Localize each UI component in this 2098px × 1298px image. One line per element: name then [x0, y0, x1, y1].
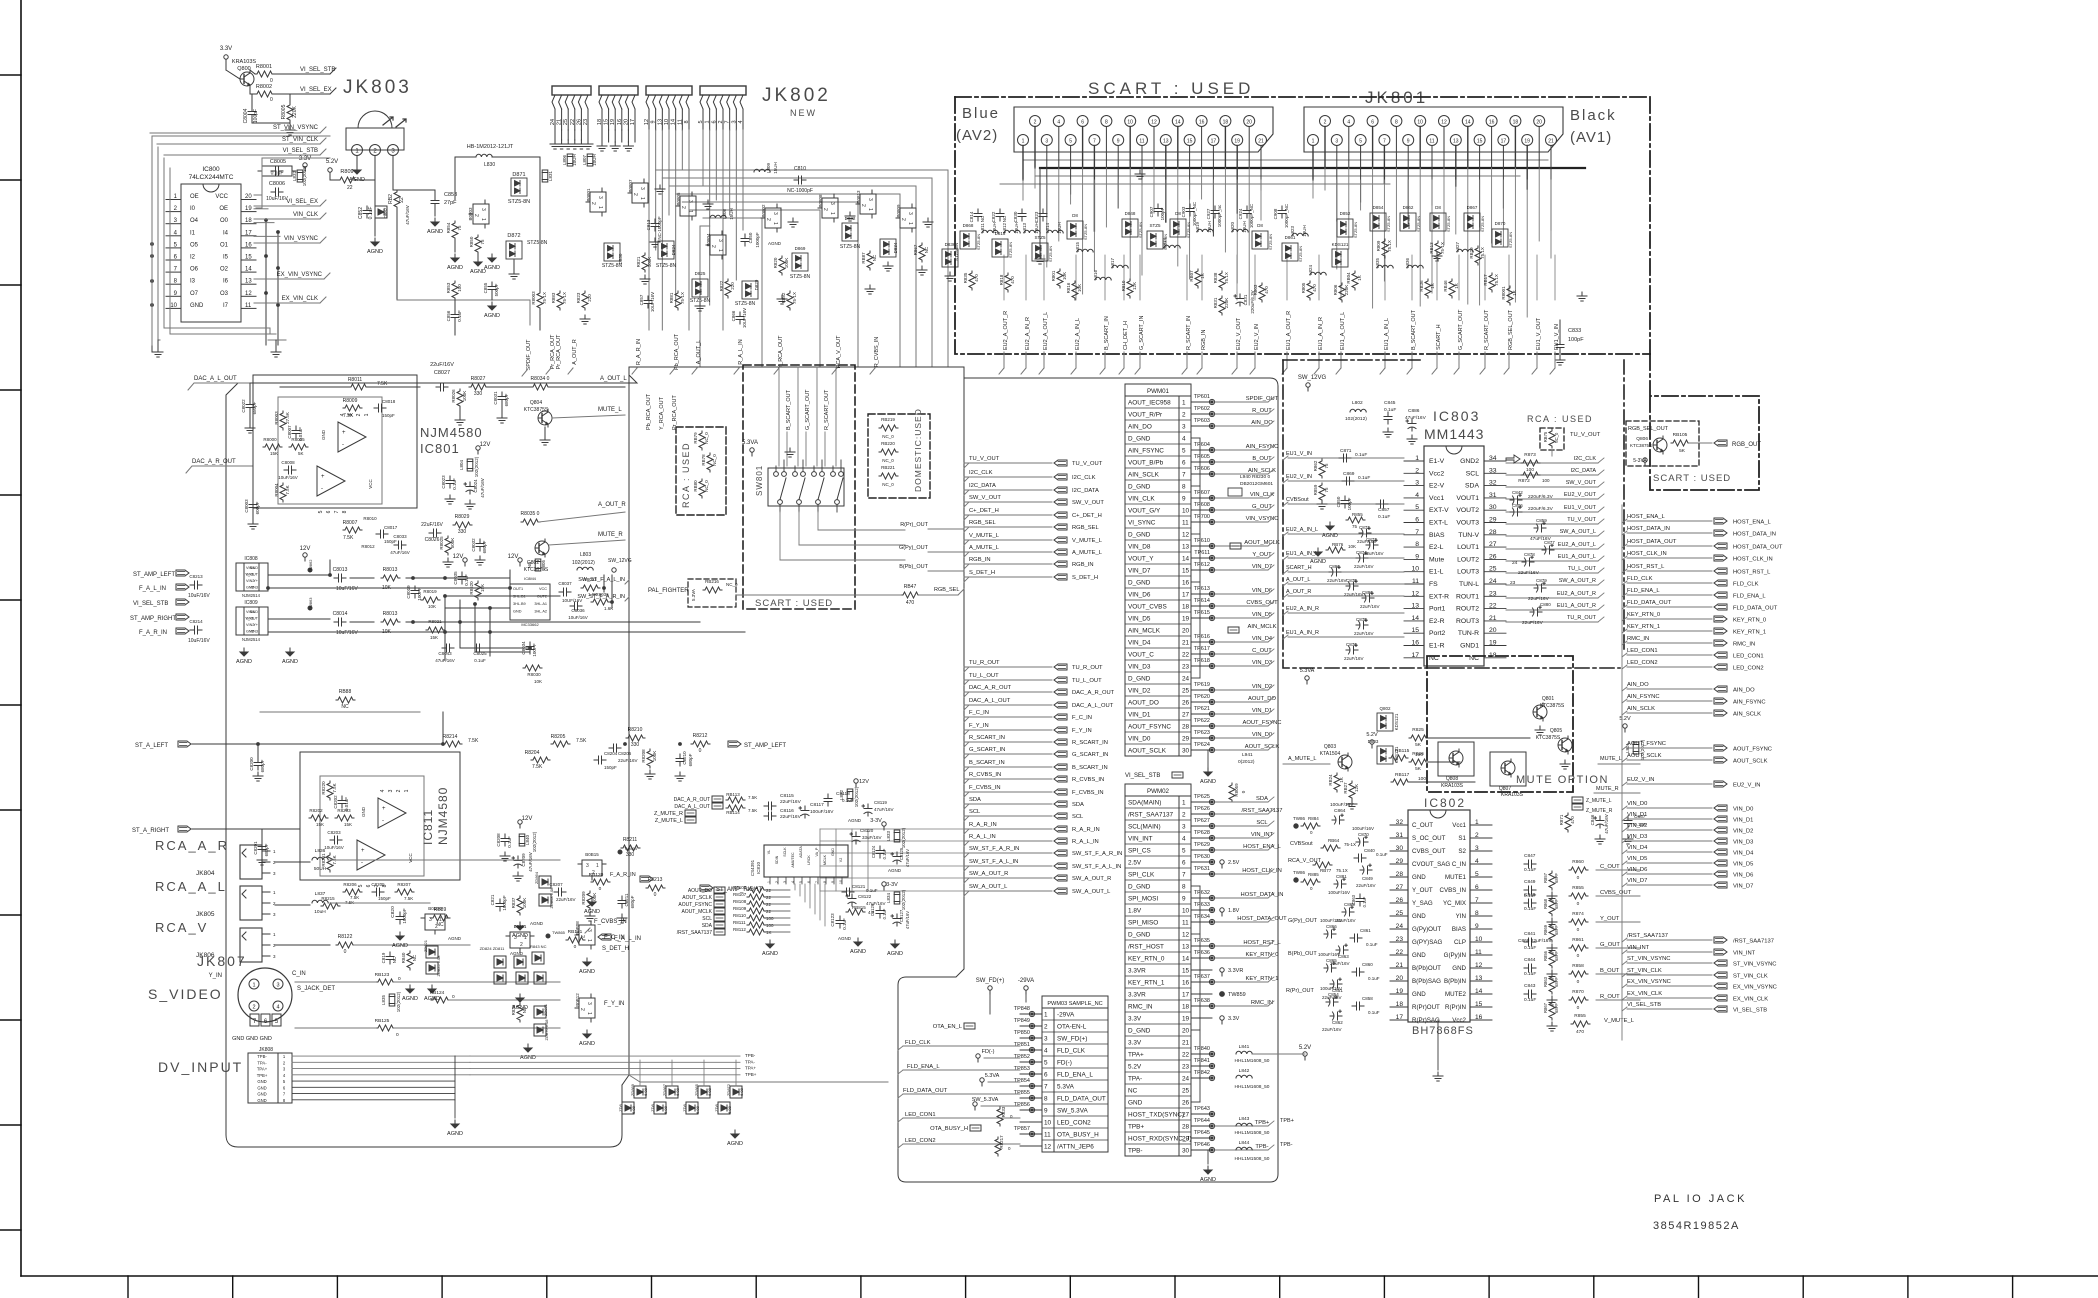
- component B0804: [706, 231, 726, 259]
- svg-text:C872: C872: [1359, 525, 1370, 530]
- svg-text:150pF: 150pF: [384, 539, 397, 544]
- MUTE OPTION dash box: [1427, 656, 1573, 792]
- svg-text:EU2_A_OUT_R: EU2_A_OUT_R: [1557, 591, 1596, 597]
- svg-text:B(Pb)IN: B(Pb)IN: [1444, 978, 1466, 985]
- svg-text:HOST_RST_L: HOST_RST_L: [1243, 940, 1281, 946]
- svg-text:C8205: C8205: [371, 882, 385, 887]
- wire AV1 pin drop: [1324, 127, 1326, 169]
- JK802 pin 14: [673, 95, 676, 109]
- svg-text:F_Y_IN: F_Y_IN: [969, 723, 989, 729]
- test point TP848: [1029, 1011, 1034, 1016]
- svg-text:MM1443: MM1443: [1424, 426, 1484, 442]
- svg-text:C8027: C8027: [434, 370, 450, 376]
- net AOUT_MCL plug: [1230, 543, 1241, 549]
- svg-text:R_A_L_IN: R_A_L_IN: [1072, 839, 1099, 845]
- svg-text:RB36: RB36: [1419, 280, 1424, 292]
- svg-text:3HL.A1: 3HL.A1: [534, 602, 547, 606]
- svg-text:ST_AMP_LEFT: ST_AMP_LEFT: [133, 572, 175, 578]
- wire junction: [444, 595, 447, 598]
- svg-text:IC800: IC800: [202, 166, 220, 173]
- S-Video pin 3: [273, 979, 283, 989]
- svg-text:NC: NC: [872, 254, 877, 261]
- svg-text:VIN_CLK: VIN_CLK: [1250, 492, 1274, 498]
- center region outline: [906, 367, 964, 977]
- wire junction: [257, 743, 260, 746]
- svg-text:LRCK: LRCK: [807, 855, 811, 865]
- svg-text:10: 10: [1182, 908, 1190, 915]
- svg-text:23: 23: [1182, 1064, 1190, 1071]
- PWM01 test point TP614 net CVBS_OUT: [1191, 605, 1212, 607]
- svg-text:C843: C843: [1524, 983, 1536, 989]
- resistor R8201 7.5K: [327, 853, 333, 872]
- svg-text:SCL: SCL: [969, 809, 981, 815]
- PWM01 test point TP615 net VIN_D5: [1191, 617, 1212, 619]
- svg-text:5K: 5K: [298, 451, 304, 456]
- svg-text:L820: L820: [1230, 221, 1235, 232]
- PWM02 test point TP643 net: [1191, 1113, 1212, 1115]
- AV2 pin bottom 17: [1208, 135, 1219, 146]
- svg-text:TPA+: TPA+: [1128, 1052, 1144, 1059]
- svg-text:TP633: TP633: [1194, 902, 1210, 908]
- zener ZD864: [539, 876, 551, 888]
- svg-text:A_OUT_L: A_OUT_L: [600, 376, 627, 382]
- svg-text:9: 9: [1182, 496, 1186, 503]
- svg-text:EU2_V_OUT: EU2_V_OUT: [1564, 492, 1597, 498]
- svg-text:D834: D834: [893, 242, 898, 253]
- JK802 pin 1: [707, 95, 710, 109]
- net tag: [1054, 751, 1067, 757]
- svg-text:21: 21: [1182, 640, 1190, 647]
- net tag: [1714, 860, 1727, 866]
- inductor L832 102(2012): [297, 170, 303, 182]
- svg-text:TP842: TP842: [1194, 1070, 1210, 1076]
- svg-text:NC_0: NC_0: [704, 432, 709, 444]
- svg-text:PWM03 SAMPLE_NC: PWM03 SAMPLE_NC: [1047, 1001, 1102, 1007]
- svg-text:EX_VIN_VSYNC: EX_VIN_VSYNC: [277, 272, 323, 278]
- svg-text:R(Pr)IN: R(Pr)IN: [1445, 1004, 1466, 1011]
- svg-text:2: 2: [775, 881, 779, 883]
- wire AV1 pin drop: [1348, 127, 1350, 169]
- svg-text:VIN3: VIN3: [250, 586, 258, 590]
- svg-text:100pF: 100pF: [253, 109, 259, 123]
- svg-text:MUTE_L: MUTE_L: [598, 407, 622, 413]
- svg-text:100uF/16V: 100uF/16V: [1320, 918, 1342, 923]
- svg-text:FLD_CLK: FLD_CLK: [905, 1040, 931, 1046]
- op-amp U IC811 triangle A: [378, 798, 406, 828]
- svg-text:D832: D832: [845, 216, 856, 221]
- svg-text:/RST_SAA7137: /RST_SAA7137: [1733, 939, 1774, 945]
- svg-text:/RST_HOST: /RST_HOST: [1128, 944, 1164, 951]
- resistor R883 75-1X: [557, 291, 563, 310]
- op-amp block IC811 outer box: [300, 752, 460, 880]
- net tag: [700, 885, 713, 891]
- capacitor C8214 10uF/16V: [190, 626, 202, 634]
- svg-text:R8122: R8122: [338, 934, 353, 940]
- power node 12V: [463, 558, 467, 562]
- net tag: [1714, 710, 1727, 716]
- PWM03 test point TP848: [1020, 1013, 1042, 1015]
- svg-text:-29VA: -29VA: [1018, 978, 1034, 984]
- connector table PWM01: [1125, 384, 1191, 396]
- AGND ground: [371, 238, 379, 246]
- net tag: [1714, 604, 1727, 610]
- wire AV1 pin drop: [1360, 146, 1362, 203]
- svg-text:14: 14: [1182, 556, 1190, 563]
- svg-text:100K: 100K: [647, 257, 652, 268]
- svg-text:L808: L808: [722, 208, 727, 219]
- svg-text:GND: GND: [250, 566, 259, 570]
- svg-text:EX_VIN_CLK: EX_VIN_CLK: [1733, 997, 1768, 1003]
- PWM01 test point TP606 net AIN_SCLK: [1191, 473, 1212, 475]
- svg-text:B0B08: B0B08: [575, 921, 580, 935]
- PWM03 test point TP857: [1020, 1133, 1042, 1135]
- svg-text:ST_AMP_RIGHT: ST_AMP_RIGHT: [130, 616, 176, 622]
- IC IC803 MM1443 body: [1424, 446, 1484, 666]
- svg-text:SDA: SDA: [969, 797, 981, 803]
- PWM02 test point TP630 net 2.5V: [1191, 861, 1212, 863]
- svg-text:R8026: R8026: [451, 389, 456, 403]
- svg-text:YIN: YIN: [1456, 913, 1466, 920]
- resistor R8122 0: [336, 942, 355, 948]
- svg-text:R837: R837: [511, 897, 516, 908]
- net tag: [640, 876, 653, 882]
- PWM01 test point TP610 net AOUT_MCLK: [1191, 545, 1212, 547]
- wire junction: [444, 631, 447, 634]
- inductor L812 10UH: [1004, 230, 1020, 233]
- svg-text:0.1uF: 0.1uF: [1524, 867, 1536, 873]
- capacitor C886 47uF/16V: [1406, 419, 1416, 431]
- resistor R809 75.1X: [1382, 239, 1388, 258]
- svg-text:STZ5-8N: STZ5-8N: [656, 263, 677, 269]
- svg-text:D825: D825: [695, 271, 706, 276]
- svg-text:G(Py)OUT: G(Py)OUT: [1412, 926, 1441, 933]
- inductor L818: [1164, 245, 1180, 248]
- svg-text:KTA1504: KTA1504: [1320, 751, 1341, 757]
- svg-text:3: 3: [1182, 824, 1186, 831]
- svg-text:0: 0: [1577, 953, 1580, 959]
- svg-text:SCL: SCL: [702, 916, 712, 922]
- svg-text:SW_ST_F_A_R_IN: SW_ST_F_A_R_IN: [577, 594, 625, 600]
- capacitor C855 500pF: [488, 282, 496, 294]
- svg-text:D_GND: D_GND: [1128, 436, 1151, 443]
- bottom ruler tick: [336, 1276, 338, 1298]
- svg-text:C871: C871: [1340, 448, 1352, 454]
- svg-text:Pr_RCA_OUT: Pr_RCA_OUT: [550, 334, 556, 369]
- test point TP634: [1209, 919, 1214, 924]
- test point TW862: [308, 568, 312, 572]
- resistor R840 NC: [407, 951, 413, 970]
- svg-text:6: 6: [807, 881, 811, 883]
- svg-text:VIN3: VIN3: [250, 630, 258, 634]
- left ruler tick: [0, 284, 21, 286]
- svg-text:Black: Black: [1570, 107, 1617, 124]
- resistor R8009 7.5K: [343, 405, 362, 411]
- capacitor C8126 0.1uF: [876, 906, 884, 918]
- wire AV1 pin drop: [1550, 146, 1552, 231]
- svg-text:500K: 500K: [450, 538, 455, 549]
- svg-text:R8013: R8013: [383, 611, 398, 617]
- svg-text:C8006: C8006: [269, 181, 285, 187]
- svg-text:HOST_ENA_L: HOST_ENA_L: [1733, 520, 1771, 526]
- svg-text:EU2_V_IN: EU2_V_IN: [1627, 777, 1654, 783]
- svg-text:VIN_D7: VIN_D7: [1128, 568, 1151, 575]
- svg-text:TP616: TP616: [1194, 634, 1210, 640]
- svg-text:AIN_FSYNC: AIN_FSYNC: [1246, 444, 1279, 450]
- wire AV1 pin drop: [1431, 146, 1433, 206]
- net tag: [1714, 518, 1727, 524]
- svg-text:TP619: TP619: [1194, 682, 1210, 688]
- wire RCA_V to right: [275, 944, 330, 946]
- svg-text:17: 17: [1501, 139, 1507, 145]
- diode D867 STZ5-8N: [1464, 213, 1480, 231]
- resistor R863 68PF: [1549, 975, 1555, 994]
- svg-text:AIN_FSYNC: AIN_FSYNC: [1733, 700, 1766, 706]
- svg-text:IC811: IC811: [421, 809, 435, 845]
- svg-text:DV_INPUT: DV_INPUT: [158, 1059, 243, 1075]
- bottom ruler tick: [1698, 1276, 1700, 1298]
- svg-text:SDA: SDA: [1465, 483, 1479, 490]
- svg-text:Y+: Y+: [253, 623, 259, 627]
- svg-text:RB47: RB47: [904, 584, 917, 590]
- AV1 pin top 16: [1486, 116, 1497, 127]
- svg-text:TPA-: TPA-: [257, 1060, 267, 1065]
- svg-text:R818: R818: [999, 274, 1004, 285]
- svg-text:L836: L836: [315, 848, 326, 854]
- svg-text:-29VA: -29VA: [1057, 1012, 1075, 1019]
- svg-text:R858: R858: [1572, 963, 1584, 969]
- svg-text:100uF/16V: 100uF/16V: [1320, 986, 1342, 991]
- svg-text:7.5K: 7.5K: [404, 896, 413, 901]
- svg-text:9: 9: [1407, 139, 1410, 145]
- svg-text:10uF/16V: 10uF/16V: [188, 638, 210, 644]
- svg-text:220: 220: [730, 282, 735, 290]
- svg-text:TP643: TP643: [1194, 1106, 1210, 1112]
- IC800 right wire column: [265, 220, 267, 345]
- capacitor C8206 22uF/16V: [609, 744, 621, 752]
- resistor R8003 75-1X: [537, 291, 543, 310]
- PWM02 test point TP636 net KEY_RTN_0: [1191, 957, 1212, 959]
- svg-text:R8003: R8003: [274, 411, 279, 425]
- resistor RB815 4.7: [846, 909, 865, 915]
- resistor RB123 0: [376, 979, 395, 985]
- svg-text:VOUT2: VOUT2: [1456, 507, 1479, 514]
- svg-text:C8123: C8123: [830, 913, 835, 927]
- svg-text:G_SCART_IN: G_SCART_IN: [1072, 752, 1108, 758]
- svg-text:C847: C847: [1524, 853, 1536, 859]
- svg-text:Vcc1: Vcc1: [1452, 822, 1466, 829]
- svg-text:TP610: TP610: [1194, 538, 1210, 544]
- capacitor C8018 150pF: [374, 404, 386, 412]
- svg-text:R8212: R8212: [693, 733, 708, 739]
- power node 5.2V: [1303, 1052, 1307, 1056]
- svg-text:AGND: AGND: [484, 313, 500, 319]
- AV2 pin top 10: [1125, 116, 1136, 127]
- svg-text:8: 8: [1044, 1096, 1048, 1103]
- svg-text:NC_0: NC_0: [882, 482, 894, 487]
- svg-text:TP611: TP611: [1194, 550, 1210, 556]
- svg-text:C861: C861: [1360, 928, 1371, 933]
- AGND ground: [396, 932, 404, 940]
- svg-text:SW_ST_F_A_L_IN: SW_ST_F_A_L_IN: [578, 577, 625, 583]
- test point TP603: [1209, 423, 1214, 428]
- svg-text:RB115: RB115: [1395, 748, 1410, 754]
- svg-text:12V: 12V: [859, 779, 869, 785]
- svg-text:TP628: TP628: [1194, 830, 1210, 836]
- svg-text:22uF/16V: 22uF/16V: [1344, 656, 1364, 661]
- svg-text:11: 11: [1182, 920, 1189, 927]
- ground: [917, 266, 927, 275]
- svg-text:0.1uF: 0.1uF: [1524, 945, 1536, 951]
- svg-text:G(Py)_OUT: G(Py)_OUT: [899, 545, 929, 551]
- svg-text:21: 21: [1182, 1040, 1190, 1047]
- svg-text:B_SCART_OUT: B_SCART_OUT: [1411, 309, 1417, 350]
- AV2 pin bottom 7: [1089, 135, 1100, 146]
- svg-text:ZD824 ZD811: ZD824 ZD811: [480, 946, 506, 951]
- svg-text:AGND: AGND: [1322, 533, 1338, 539]
- svg-text:10: 10: [1127, 120, 1133, 126]
- net tag: [1714, 652, 1727, 658]
- svg-text:EU2_A_IN_L: EU2_A_IN_L: [1075, 318, 1081, 350]
- svg-text:L841: L841: [1239, 1044, 1250, 1050]
- net tag: [176, 628, 189, 634]
- inductor L831: [542, 170, 548, 182]
- svg-text:19: 19: [1234, 139, 1240, 145]
- svg-text:I2C_DATA: I2C_DATA: [1072, 488, 1099, 494]
- svg-text:10: 10: [1182, 508, 1190, 515]
- svg-text:R8213: R8213: [648, 877, 663, 883]
- PWM02 test point TP633 net 1.8V: [1191, 909, 1212, 911]
- test point TP854: [1029, 1083, 1034, 1088]
- svg-text:AGND: AGND: [579, 1041, 595, 1047]
- svg-text:R855: R855: [1352, 512, 1363, 517]
- svg-text:5: 5: [318, 510, 324, 513]
- svg-text:0: 0: [1577, 875, 1580, 881]
- svg-text:F_CVBS_IN: F_CVBS_IN: [594, 919, 627, 925]
- svg-text:C8005: C8005: [270, 159, 286, 165]
- net tag: [1714, 664, 1727, 670]
- wire AV2 pin drop: [1212, 146, 1214, 237]
- wire AV2 pin drop: [1058, 127, 1060, 169]
- resistor R820 100K: [779, 256, 785, 275]
- JK802 pin 22: [572, 95, 575, 109]
- svg-text:GND1: GND1: [1460, 643, 1479, 650]
- svg-text:R820: R820: [773, 257, 778, 268]
- zener ZD869 6.08: [634, 1086, 646, 1098]
- svg-text:22: 22: [399, 197, 405, 203]
- resistor RB87 NC: [867, 251, 873, 270]
- svg-text:+: +: [321, 474, 325, 480]
- svg-text:GND: GND: [250, 610, 259, 614]
- bottom ruler tick: [651, 1276, 653, 1298]
- test point TP615: [1209, 615, 1214, 620]
- svg-text:HOST_DATA_OUT: HOST_DATA_OUT: [1237, 916, 1287, 922]
- svg-text:C8023: C8023: [441, 475, 446, 489]
- svg-text:12: 12: [1182, 532, 1190, 539]
- svg-text:12V: 12V: [300, 546, 311, 552]
- wire junction: [474, 603, 477, 606]
- capacitor C862 22uF/16V: [1330, 1010, 1342, 1020]
- svg-text:TP850: TP850: [1014, 1030, 1030, 1036]
- svg-text:D8: D8: [1435, 205, 1441, 210]
- svg-text:TP851: TP851: [1014, 1042, 1030, 1048]
- svg-text:G_SCART_IN: G_SCART_IN: [969, 747, 1005, 753]
- svg-text:0(2012): 0(2012): [1238, 759, 1255, 765]
- wire AV1 pin drop: [1526, 146, 1528, 190]
- PWM03 test point TP851: [1020, 1049, 1042, 1051]
- svg-text:TP629: TP629: [1194, 842, 1210, 848]
- svg-text:TW864: TW864: [624, 846, 638, 851]
- net tag: [1714, 827, 1727, 833]
- svg-text:SDA: SDA: [1256, 796, 1268, 802]
- svg-text:0.1uF: 0.1uF: [452, 478, 457, 490]
- svg-text:TP638: TP638: [1194, 998, 1210, 1004]
- svg-text:DB2012GM601: DB2012GM601: [1240, 481, 1273, 487]
- svg-text:TP607: TP607: [1194, 490, 1210, 496]
- svg-text:B(Pb)SAG: B(Pb)SAG: [1412, 978, 1441, 985]
- net tag: [1714, 745, 1727, 751]
- svg-text:V_MUTE_L: V_MUTE_L: [1072, 538, 1103, 544]
- resistor R806 220K: [1339, 283, 1345, 302]
- capacitor C8125 47uF/16V: [891, 852, 901, 864]
- svg-text:R_CVBS_IN: R_CVBS_IN: [874, 337, 880, 368]
- component B0807: [628, 179, 648, 207]
- svg-text:68PF: 68PF: [1554, 899, 1559, 909]
- power node: [1220, 860, 1224, 864]
- resistor R805 470: [1307, 281, 1313, 300]
- ground: [610, 142, 620, 151]
- resistor RB121 0: [566, 937, 585, 943]
- svg-text:R810: R810: [1121, 280, 1126, 291]
- svg-text:R873: R873: [1524, 452, 1536, 458]
- svg-text:C8124: C8124: [871, 845, 876, 858]
- svg-text:EU2_A_IN_R: EU2_A_IN_R: [1286, 606, 1319, 612]
- svg-text:EU1_V_IN: EU1_V_IN: [1286, 451, 1312, 457]
- zener ZD803: [534, 972, 546, 984]
- svg-text:D869: D869: [795, 246, 806, 251]
- svg-text:AGND: AGND: [427, 229, 443, 235]
- svg-text:TP615: TP615: [1194, 610, 1210, 616]
- svg-text:330: 330: [474, 391, 483, 397]
- svg-text:12K: 12K: [1354, 784, 1359, 792]
- svg-text:74LCX244MTC: 74LCX244MTC: [189, 174, 234, 181]
- ground: [550, 140, 560, 149]
- svg-text:TP700: TP700: [1194, 514, 1210, 520]
- svg-text:VI_SEL_STB: VI_SEL_STB: [1627, 1002, 1661, 1008]
- svg-text:R8013: R8013: [383, 567, 398, 573]
- test point TP626: [1209, 811, 1214, 816]
- svg-text:KTC3875S: KTC3875S: [1630, 443, 1652, 448]
- inductor L835: [1377, 265, 1393, 268]
- svg-text:Vcc2: Vcc2: [1429, 470, 1444, 477]
- svg-text:AGND: AGND: [402, 996, 418, 1002]
- svg-text:220K: 220K: [292, 106, 298, 118]
- component B0809: [896, 204, 916, 232]
- ground: [570, 140, 580, 149]
- svg-text:5K: 5K: [1679, 448, 1686, 454]
- capacitor C8003 600pF: [252, 466, 254, 500]
- svg-text:GND: GND: [257, 1098, 266, 1103]
- svg-text:GND: GND: [1452, 965, 1466, 972]
- svg-text:GND: GND: [257, 1085, 266, 1090]
- svg-text:S2: S2: [1458, 848, 1466, 855]
- svg-text:R840: R840: [401, 952, 406, 963]
- svg-text:C875: C875: [1356, 617, 1367, 622]
- svg-text:CVBSout: CVBSout: [1286, 497, 1309, 503]
- svg-text:12K: 12K: [1132, 282, 1137, 290]
- svg-text:EU2_V_IN: EU2_V_IN: [1733, 783, 1760, 789]
- power node SW_12VG: [1306, 383, 1310, 387]
- svg-text:KEY_RTN_1: KEY_RTN_1: [1733, 630, 1766, 636]
